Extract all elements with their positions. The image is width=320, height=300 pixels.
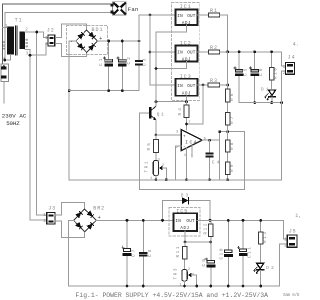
junction caps ground: [68, 89, 71, 92]
capacitor C10: [219, 220, 233, 286]
svg-text:-: -: [70, 39, 73, 45]
wire IC2 out: [198, 51, 209, 53]
capacitor C4: [206, 140, 220, 180]
svg-text:J4: J4: [288, 55, 295, 61]
svg-text:7: 7: [188, 121, 190, 125]
wire IC5 out rail to J5: [197, 220, 287, 239]
capacitor C3: [135, 41, 148, 91]
wire J2 pin1 to BD1 top: [55, 24, 86, 37]
diode BR2-D3: [76, 223, 81, 228]
svg-text:+: +: [183, 135, 186, 140]
wire J3 pin1 to BR2 top: [55, 202, 84, 215]
svg-text:IN: IN: [177, 51, 183, 56]
op-amp IC4: [181, 130, 202, 151]
svg-text:C2: C2: [127, 57, 132, 65]
wire opamp pin1 stub: [191, 145, 193, 157]
capacitor C6: [249, 52, 264, 103]
wire secondary pin3 under-route to J2 pin2: [25, 43, 48, 55]
svg-text:TR3: TR3: [174, 268, 179, 279]
wire IC2 in: [150, 51, 176, 53]
svg-text:OUT: OUT: [187, 14, 196, 19]
svg-text:C1: C1: [99, 58, 104, 66]
wire R3 to divider bus: [220, 84, 228, 86]
svg-text:R4: R4: [178, 108, 183, 116]
svg-text:D3: D3: [181, 194, 189, 199]
svg-text:C10: C10: [219, 248, 224, 259]
wire fan upper feed: [3, 4, 112, 65]
wire IC3 out to opamp supply: [187, 85, 204, 124]
junction opamp plus tap: [155, 134, 158, 137]
wire J2 pin2 to BD1 bottom: [55, 43, 86, 56]
svg-text:R8: R8: [230, 142, 235, 150]
svg-text:C11: C11: [247, 247, 252, 258]
junction IC1 in: [149, 14, 152, 17]
svg-text:50HZ: 50HZ: [6, 120, 20, 127]
svg-text:C9: C9: [202, 259, 207, 267]
svg-text:TR1: TR1: [144, 161, 149, 172]
svg-text:C3: C3: [143, 58, 148, 66]
svg-text:R12: R12: [203, 223, 208, 234]
junction IC3 adj: [185, 100, 188, 103]
svg-text:C5: C5: [243, 68, 248, 76]
connector J1 (mains, clipped at edge): [1, 64, 8, 82]
svg-text:R6: R6: [230, 93, 235, 101]
transistor Q1: [139, 102, 156, 135]
junction IC3 out branch: [202, 84, 205, 87]
svg-text:IN: IN: [175, 219, 181, 224]
junction sec3: [29, 54, 32, 57]
svg-text:D1: D1: [261, 88, 269, 93]
wire opamp minus to rail: [175, 146, 181, 180]
junction adj bus IC2: [155, 67, 158, 70]
svg-text:230V AC: 230V AC: [2, 113, 27, 120]
junction primary-fan: [3, 59, 6, 62]
diode BR2-D1: [76, 213, 81, 218]
svg-text:C8: C8: [148, 249, 153, 257]
svg-text:600: 600: [26, 38, 30, 48]
svg-text:Sam 6/8: Sam 6/8: [283, 293, 300, 298]
svg-text:4.: 4.: [293, 42, 299, 48]
wire riser to IC input bus: [139, 15, 176, 41]
svg-text:R11: R11: [176, 246, 181, 257]
capacitor C9: [202, 242, 216, 286]
capacitor C7: [122, 220, 137, 286]
svg-text:J5: J5: [289, 228, 296, 234]
svg-text:IN: IN: [177, 84, 183, 89]
junction IC2 in: [149, 51, 152, 54]
wire J3 pin2 to BR2 bottom: [55, 221, 84, 238]
capacitor C5: [234, 52, 249, 103]
svg-text:IC4: IC4: [185, 141, 196, 146]
diode BR2-D4: [87, 224, 92, 229]
wire output to divider junction and rail: [220, 132, 245, 180]
wire BR2 minus to bottom rail: [68, 220, 287, 286]
diode BD1-D1: [78, 34, 83, 39]
junction sec2: [35, 31, 38, 34]
wire T1 pin1: [3, 27, 8, 29]
svg-text:J3: J3: [48, 205, 55, 211]
svg-text:OUT: OUT: [186, 219, 195, 224]
diode BD1-D3: [78, 44, 83, 49]
svg-text:C7: C7: [132, 249, 137, 257]
wire long drop to J3 pin2: [30, 49, 47, 220]
wire caps ground rail: [69, 90, 139, 92]
svg-text:T1: T1: [15, 18, 22, 24]
diode BD1-D4: [89, 45, 94, 50]
wire IC2 adj: [156, 62, 187, 69]
capacitor C1: [99, 41, 113, 91]
svg-text:Fan: Fan: [128, 6, 139, 13]
wire IC1 out: [198, 14, 209, 16]
T1 primary winding: [7, 27, 14, 55]
junction plus rail riser: [138, 40, 141, 43]
svg-text:R7: R7: [230, 116, 235, 124]
wire fan lower feed: [5, 12, 112, 60]
svg-text:BR2: BR2: [93, 205, 104, 211]
wire long drop to J3 pin1: [37, 32, 47, 215]
wire BR2 plus rail: [96, 219, 173, 221]
T1 core: [15, 26, 17, 55]
diode BR2-D2: [87, 211, 92, 216]
wire J4 pin2 down right side: [69, 71, 285, 180]
junction adj bus Q1: [155, 100, 158, 103]
svg-text:IN: IN: [177, 14, 183, 19]
wire IC5 adj: [185, 231, 211, 242]
wire BD1 plus rail: [98, 40, 140, 42]
wire upper return rail: [239, 102, 282, 104]
svg-text:R9: R9: [230, 164, 235, 172]
svg-text:C6: C6: [259, 68, 264, 76]
svg-text:1,: 1,: [295, 213, 300, 219]
svg-text:Fig.1- POWER SUPPLY +4.5V-25V/: Fig.1- POWER SUPPLY +4.5V-25V/15A and +1…: [76, 292, 269, 299]
wire IC1 adj: [156, 25, 187, 102]
wire J4 positive rail: [220, 52, 286, 66]
svg-text:OUT: OUT: [187, 51, 196, 56]
svg-text:R5: R5: [147, 143, 152, 151]
svg-text:R13: R13: [263, 232, 268, 243]
T1 secondary winding: [20, 32, 26, 50]
dashed box IC5: [169, 208, 200, 237]
wire IC3 out: [198, 84, 209, 86]
wire input bus down: [150, 15, 176, 85]
capacitor C2: [117, 41, 132, 91]
svg-text:380: 380: [3, 40, 7, 50]
diode BD1-D2: [89, 32, 94, 37]
svg-text:OUT: OUT: [187, 84, 196, 89]
svg-text:Q1: Q1: [157, 113, 164, 118]
dashed box BD1: [67, 26, 108, 55]
wire BD1 minus down to mid rail: [69, 41, 76, 180]
svg-text:BD1: BD1: [92, 27, 103, 33]
wire IC3 adj: [156, 96, 187, 102]
wire R1 to J4 rail: [220, 15, 228, 52]
wire secondary pin2 to J2 pin1: [25, 32, 48, 37]
svg-text:C4: C4: [212, 161, 220, 166]
svg-text:J2: J2: [47, 28, 54, 34]
fan M1: [111, 2, 127, 15]
wire opamp output: [202, 139, 220, 141]
capacitor C8: [139, 220, 153, 286]
junction R4 opamp pin7: [185, 123, 188, 126]
wire opamp pin4: [185, 148, 187, 180]
wire J1 stub down: [3, 82, 5, 103]
wire T1 pin4 to junction: [5, 55, 11, 61]
svg-text:-: -: [183, 145, 186, 150]
svg-text:D2: D2: [266, 266, 274, 271]
wire to opamp plus: [156, 134, 181, 136]
wire divider bus: [227, 52, 229, 180]
wire Q1 base loop: [139, 113, 244, 189]
capacitor C11: [237, 220, 252, 286]
dashed box regulators: [172, 3, 200, 101]
